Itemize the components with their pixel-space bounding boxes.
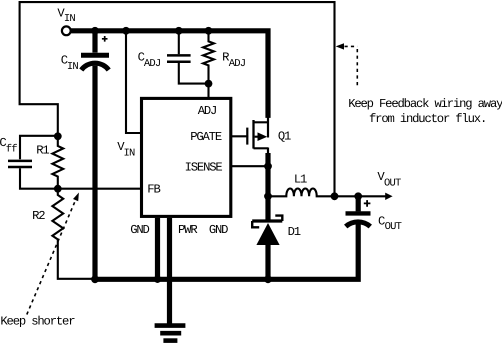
wire: top VIN bus from terminal to Q1 source xyxy=(71,31,268,118)
label R1 xyxy=(36,143,49,157)
wire: ISENSE pin to drain node xyxy=(231,165,268,167)
svg-text:IN: IN xyxy=(67,61,79,73)
pin label FB xyxy=(147,183,160,197)
junction at RADJ/CADJ/ADJ pin xyxy=(205,80,213,88)
label R2 xyxy=(32,209,45,223)
op-amp U1 regulator IC box xyxy=(142,98,231,216)
transistor Q1 (P-channel MOSFET) xyxy=(247,117,268,149)
label VIN (IC pin) xyxy=(117,140,135,159)
pin label PGATE xyxy=(190,130,222,144)
capacitor CIN (polarized) xyxy=(81,33,109,279)
resistor R2 xyxy=(52,189,95,279)
pin label GND xyxy=(130,223,149,237)
svg-text:IN: IN xyxy=(64,13,76,25)
svg-text:Keep Feedback wiring away: Keep Feedback wiring away xyxy=(348,97,502,111)
svg-text:Keep shorter: Keep shorter xyxy=(0,314,75,328)
junction at R1 top / Cff top xyxy=(54,132,62,140)
wire: ADJ pin wire into IC xyxy=(207,84,209,100)
wire: IC VIN pin wire from top bus xyxy=(126,33,142,133)
svg-text:OUT: OUT xyxy=(384,178,401,190)
label D1 xyxy=(288,225,301,239)
wire: feedback sense loop (VOUT node up, across top, down left, to R1 top) xyxy=(20,2,335,196)
label VOUT xyxy=(377,170,401,190)
junction at VOUT node / COUT xyxy=(354,192,362,200)
svg-text:ADJ: ADJ xyxy=(198,104,217,118)
junction at ISENSE / drain xyxy=(264,162,272,170)
pin label ISENSE xyxy=(185,161,223,175)
pin label ADJ xyxy=(198,104,217,118)
plus sign of CIN xyxy=(102,36,108,42)
junction on VIN bus at IC VIN pin wire xyxy=(122,27,130,35)
ground (earth symbol) xyxy=(155,326,186,341)
wire: FB node to IC FB pin xyxy=(58,188,142,190)
svg-text:OUT: OUT xyxy=(385,221,402,233)
svg-text:ADJ: ADJ xyxy=(144,58,161,70)
svg-text:PWR GND: PWR GND xyxy=(178,223,228,237)
junction at switch node (drain / L1 / D1) xyxy=(264,192,272,200)
capacitor CADJ xyxy=(167,33,206,84)
svg-text:R1: R1 xyxy=(36,143,49,157)
annotation arrow: keep shorter (dashed) xyxy=(27,193,79,315)
wire: VOUT output with arrow xyxy=(358,193,392,200)
svg-text:GND: GND xyxy=(130,223,149,237)
label VIN (input terminal) xyxy=(57,6,75,25)
svg-text:PGATE: PGATE xyxy=(190,130,222,144)
wire: Q1 drain down to D1 cathode xyxy=(267,148,269,220)
capacitor COUT (polarized) xyxy=(346,196,371,226)
junction at FB node (R1/R2/Cff/FB) xyxy=(54,185,62,193)
junction on VIN bus at CIN xyxy=(91,27,99,35)
label COUT xyxy=(378,214,402,233)
svg-text:Q1: Q1 xyxy=(278,130,291,144)
junction at D1 / ground bus xyxy=(264,275,272,283)
svg-text:ff: ff xyxy=(6,143,18,155)
svg-text:ADJ: ADJ xyxy=(229,58,246,70)
annotation text: keep feedback wiring away xyxy=(348,97,502,126)
node VIN input terminal (open circle) xyxy=(62,26,71,35)
junction at GND pin / ground bus xyxy=(154,276,161,283)
inductor L1 xyxy=(268,189,335,197)
wire: IC GND pin to ground bus xyxy=(155,218,160,279)
junction on VIN bus at CADJ xyxy=(175,27,183,35)
label CIN xyxy=(61,54,79,73)
wire: PGATE pin to Q1 gate xyxy=(231,135,249,137)
plus sign of COUT xyxy=(364,200,371,207)
label CADJ xyxy=(138,50,161,69)
svg-text:ISENSE: ISENSE xyxy=(185,161,223,175)
svg-text:IN: IN xyxy=(124,147,136,159)
pin label PWR GND xyxy=(178,223,228,237)
resistor RADJ xyxy=(203,33,214,84)
resistor R1 xyxy=(52,136,63,188)
svg-text:L1: L1 xyxy=(294,172,307,186)
label Cff xyxy=(0,136,17,155)
annotation arrow: keep feedback wiring away (dashed) xyxy=(336,43,358,88)
svg-text:from inductor flux.: from inductor flux. xyxy=(369,112,486,126)
label RADJ xyxy=(222,50,246,69)
annotation text: keep shorter xyxy=(0,314,75,328)
junction on VIN bus at RADJ xyxy=(205,27,213,35)
wire: bottom ground bus to COUT xyxy=(95,224,358,279)
junction at ground bus / CIN / R2 xyxy=(91,275,99,283)
svg-text:FB: FB xyxy=(147,183,160,197)
diode D1 (Schottky) xyxy=(252,216,282,280)
svg-text:D1: D1 xyxy=(288,225,301,239)
label L1 xyxy=(294,172,307,186)
capacitor Cff xyxy=(8,136,58,189)
wire: IC PWR GND pin through bus to earth xyxy=(167,218,172,327)
label Q1 xyxy=(278,130,291,144)
junction at L1 output / feedback sense line xyxy=(331,192,339,200)
wire: L1 to VOUT node xyxy=(335,195,359,197)
svg-text:R2: R2 xyxy=(32,209,45,223)
